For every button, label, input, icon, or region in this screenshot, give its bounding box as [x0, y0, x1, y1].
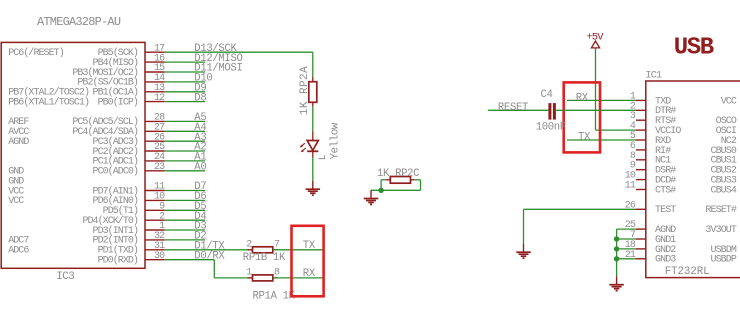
svg-text:VCC: VCC — [8, 196, 24, 207]
svg-text:1K RP2C: 1K RP2C — [377, 168, 419, 180]
svg-text:AGND: AGND — [8, 137, 29, 148]
svg-text:PD0(RXD): PD0(RXD) — [98, 255, 138, 267]
svg-text:RP1B 1K: RP1B 1K — [243, 252, 286, 264]
svg-text:FT232RL: FT232RL — [665, 266, 710, 278]
svg-text:2: 2 — [246, 239, 252, 250]
svg-text:TEST: TEST — [655, 205, 676, 216]
svg-text:3V3OUT: 3V3OUT — [705, 225, 737, 236]
svg-text:100nF: 100nF — [536, 122, 566, 134]
svg-text:ADC6: ADC6 — [8, 246, 29, 257]
svg-text:TX: TX — [578, 131, 591, 143]
svg-text:PB0(ICP): PB0(ICP) — [98, 96, 138, 108]
svg-text:CTS#: CTS# — [655, 185, 676, 196]
svg-text:RESET#: RESET# — [705, 205, 737, 216]
svg-text:+5V: +5V — [586, 31, 604, 43]
svg-text:RX: RX — [303, 268, 316, 280]
svg-text:PB6(XTAL1/TOSC1): PB6(XTAL1/TOSC1) — [8, 96, 89, 108]
svg-text:D0/RX: D0/RX — [194, 250, 225, 262]
svg-text:USBDP: USBDP — [710, 255, 736, 266]
svg-text:IC1: IC1 — [645, 71, 662, 82]
svg-text:1: 1 — [246, 268, 252, 279]
svg-text:USB: USB — [674, 34, 714, 61]
svg-text:L: L — [318, 154, 329, 160]
svg-text:RP1A 1K: RP1A 1K — [253, 291, 296, 303]
svg-text:TX: TX — [303, 240, 316, 252]
svg-text:RX: RX — [576, 93, 589, 105]
svg-text:RESET: RESET — [498, 102, 528, 114]
svg-text:7: 7 — [274, 239, 280, 250]
svg-text:A0: A0 — [194, 162, 206, 174]
svg-text:PC6(/RESET): PC6(/RESET) — [8, 47, 64, 59]
svg-text:C4: C4 — [541, 89, 553, 101]
svg-text:8: 8 — [274, 268, 280, 279]
svg-text:GND3: GND3 — [655, 255, 676, 266]
svg-text:ATMEGA328P-AU: ATMEGA328P-AU — [37, 15, 121, 29]
svg-text:CBUS4: CBUS4 — [710, 185, 736, 196]
svg-text:30: 30 — [154, 251, 165, 262]
svg-text:23: 23 — [154, 162, 165, 173]
svg-text:IC3: IC3 — [56, 271, 74, 283]
svg-text:Yellow: Yellow — [330, 122, 342, 159]
svg-text:11: 11 — [625, 181, 636, 192]
svg-text:12: 12 — [154, 93, 165, 104]
svg-text:VCC: VCC — [721, 96, 737, 107]
svg-text:D8: D8 — [194, 92, 206, 104]
svg-text:1K RP2A: 1K RP2A — [299, 66, 311, 115]
svg-text:PC0(ADC0): PC0(ADC0) — [93, 166, 138, 178]
